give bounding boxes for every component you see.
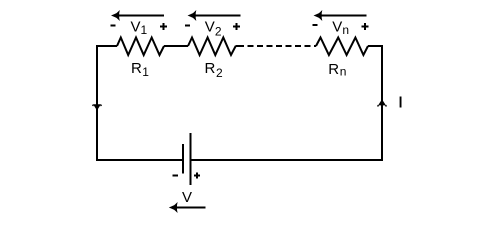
label V1 plus: [160, 26, 167, 28]
svg-text:1: 1: [142, 65, 149, 79]
wire top right stub: [368, 45, 383, 47]
resistor Rn: [316, 38, 368, 56]
svg-text:2: 2: [216, 66, 223, 80]
wire between R1 and R2: [164, 45, 188, 47]
svg-text:n: n: [342, 23, 349, 37]
battery minus sign: [172, 175, 178, 177]
svg-text:n: n: [340, 64, 347, 78]
current arrowhead on right wire (up): [378, 99, 386, 105]
svg-text:V: V: [131, 19, 141, 36]
label Vn minus: [312, 24, 317, 26]
wire top left stub: [96, 45, 117, 47]
svg-text:V: V: [205, 19, 215, 36]
svg-text:V: V: [182, 189, 192, 206]
svg-text:R: R: [131, 60, 142, 77]
voltage arrow V1 (leftward): [116, 15, 164, 17]
battery plus sign: [194, 175, 200, 177]
resistor R2: [188, 38, 236, 56]
wire left vertical: [96, 46, 98, 160]
svg-text:V: V: [332, 19, 342, 36]
battery positive plate (long): [190, 133, 192, 185]
label I (current): [400, 97, 402, 108]
current arrowhead on left wire (down): [93, 104, 101, 110]
wire bottom right: [191, 159, 384, 161]
wire dashed segment: [236, 45, 238, 47]
label Vn plus: [361, 26, 368, 28]
resistor R1: [117, 38, 164, 56]
svg-text:R: R: [328, 61, 339, 78]
label V2 minus: [185, 24, 190, 26]
wire right vertical: [381, 46, 383, 160]
svg-text:1: 1: [141, 23, 148, 37]
voltage arrow Vn (leftward): [319, 15, 367, 17]
voltage arrow V2 (leftward): [193, 15, 241, 17]
voltage arrow V (leftward, below battery): [174, 207, 206, 209]
label V1 minus: [111, 24, 116, 26]
svg-text:2: 2: [215, 25, 222, 39]
svg-text:R: R: [205, 60, 216, 77]
label V2 plus: [233, 26, 240, 28]
battery negative plate (short): [182, 144, 184, 174]
wire bottom left: [96, 159, 183, 161]
